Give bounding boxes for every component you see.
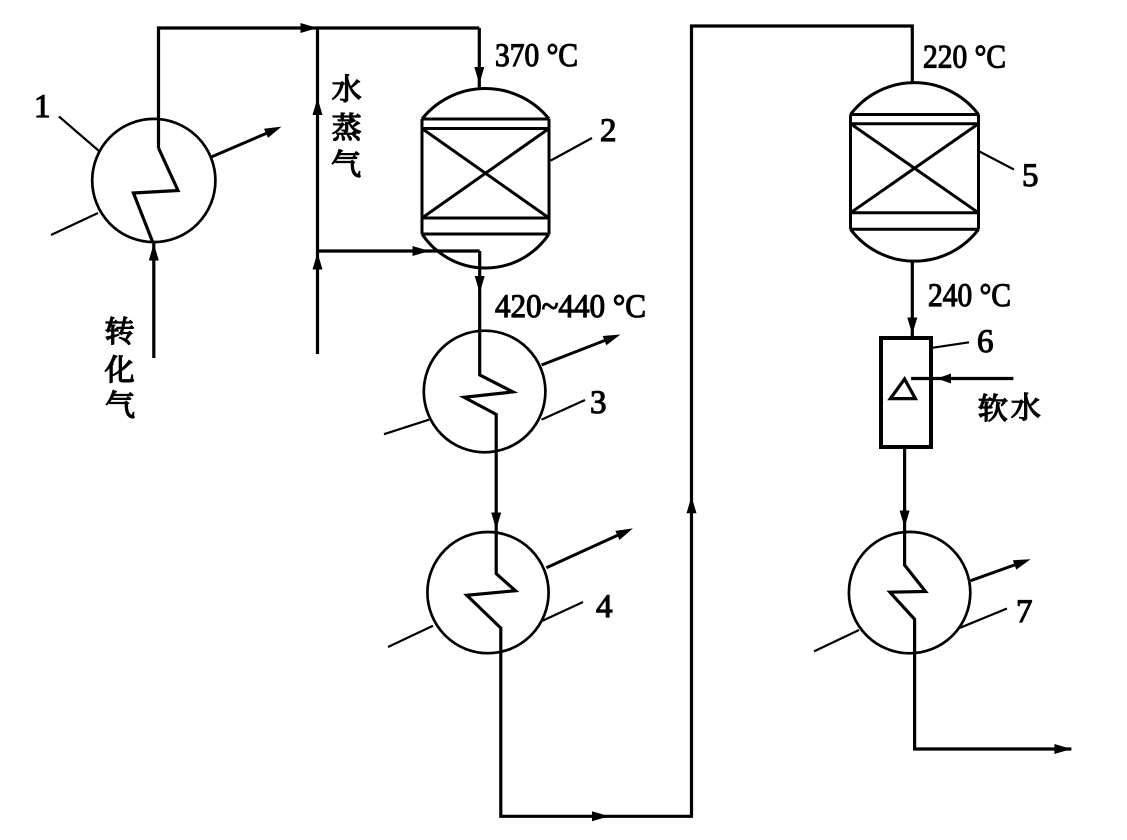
label leader line for exchanger 3 — [542, 400, 585, 420]
value label: soft water char shui — [1012, 393, 1040, 420]
heat exchanger 1: shell circle — [92, 119, 215, 242]
label 2 — [601, 119, 614, 141]
wire: soft water feed line into drum 6 — [911, 377, 1013, 380]
label 6 — [978, 330, 992, 352]
heat exchanger 3: shell-side outlet arrow (upper-right) — [542, 337, 615, 366]
heat exchanger 3: shell-side inlet diagonal (lower-left) — [384, 420, 429, 435]
heat exchanger 1: shell-side inlet diagonal (lower-left) — [51, 213, 98, 235]
heat exchanger 7: shell circle — [849, 532, 970, 653]
label 5 — [1024, 164, 1037, 186]
value label: feed gas char qi — [106, 390, 134, 417]
wire: drum 6 outlet through exchanger 7 coil to final product arrow — [890, 447, 1072, 749]
value label: feed gas char hua — [105, 355, 133, 382]
arrow: into exchanger 7 — [900, 511, 910, 528]
wire: reactor 5 outlet down to flash drum 6 — [911, 261, 914, 338]
value label: 370 C — [496, 44, 576, 66]
value label: feed gas char zhuan — [106, 317, 134, 345]
heat exchanger 1: shell-side outlet arrow (upper-right) — [210, 129, 276, 157]
reactor vessel 5: shell walls — [851, 115, 979, 230]
reactor vessel 2: bottom dome — [422, 234, 549, 268]
wire: reactor 2 outlet down through exchanger 3 coil, exchanger 4 coil, bottom run, right riser, top run into reactor 5 — [464, 26, 912, 816]
arrow: reactor 2 outlet downward — [475, 276, 485, 293]
reactor vessel 5: bottom dome — [851, 229, 979, 261]
heat exchanger 7: shell-side outlet arrow (upper-right) — [971, 561, 1025, 581]
drum 6: internal triangle symbol — [890, 379, 915, 399]
steam line lower up-arrow below branch junction — [313, 253, 323, 270]
arrow: into exchanger 4 — [491, 513, 501, 530]
reactor vessel 5: tray lines — [851, 115, 979, 230]
label leader line for exchanger 4 — [542, 602, 583, 621]
label leader line for drum 6 — [933, 342, 969, 347]
label 4 — [597, 595, 612, 617]
flow arrow on top line at steam junction — [301, 23, 318, 33]
heat exchanger 4: shell circle — [427, 532, 548, 653]
reactor vessel 5: catalyst bed X cross — [851, 124, 979, 213]
steam line upper up-arrow — [313, 98, 323, 115]
heat exchanger 7: shell-side inlet diagonal (lower-left) — [814, 630, 859, 651]
value label: steam char qi — [332, 150, 360, 177]
wire: feed gas inlet riser into exchanger 1 bottom — [152, 244, 155, 359]
heat exchanger 4: shell-side inlet diagonal (lower-left) — [388, 626, 433, 647]
value label: steam char zheng — [333, 113, 361, 141]
heat exchanger 3: shell circle — [424, 331, 546, 453]
arrow: bottom run rightward — [592, 811, 609, 821]
label 7 — [1018, 600, 1031, 622]
arrow: final product outlet — [1054, 744, 1071, 754]
label 1 — [37, 95, 49, 117]
value label: steam char shui — [333, 75, 361, 102]
wire: drop into reactor 2 top — [478, 28, 481, 89]
reactor vessel 2: shell walls — [422, 119, 549, 234]
heat exchanger 4: shell-side outlet arrow (upper-right) — [546, 531, 627, 568]
value label: soft water char ruan — [979, 394, 1007, 422]
label 3 — [592, 391, 606, 413]
reactor vessel 2: tray lines — [422, 119, 549, 234]
drum 6: rectangular vessel body — [881, 338, 931, 447]
arrow: right riser upward — [687, 496, 697, 513]
value label: 220 C — [924, 46, 1004, 68]
reactor vessel 2: catalyst bed X cross — [422, 129, 549, 219]
wire: steam branch into reactor 2 bottom — [318, 249, 480, 252]
value label: 240 C — [929, 284, 1009, 306]
reactor vessel 5: top dome — [851, 83, 979, 115]
heat exchanger 1: internal zigzag coil — [133, 148, 178, 242]
wire: steam supply vertical line — [316, 28, 319, 354]
label leader line for exchanger 7 — [960, 609, 1007, 628]
label leader line for exchanger 1 — [59, 117, 99, 152]
value label: 420~440 C — [496, 295, 645, 317]
reactor vessel 2: top dome — [422, 89, 549, 119]
wire: exchanger 1 top outlet up and across to reactor 2 — [159, 28, 480, 148]
label leader line for reactor 2 — [551, 138, 592, 161]
label leader line for reactor 5 — [979, 151, 1014, 170]
